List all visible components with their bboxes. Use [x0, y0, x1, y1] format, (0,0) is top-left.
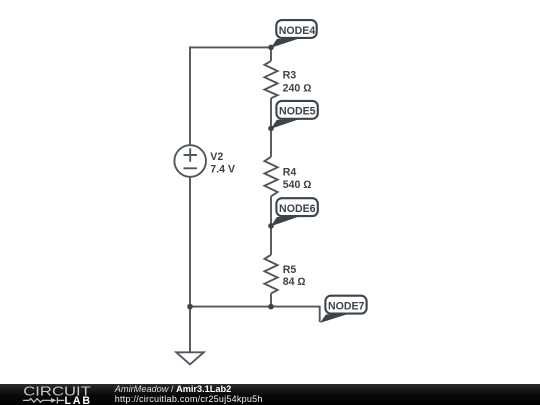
ground [176, 352, 203, 364]
footer bar [0, 384, 540, 405]
node junction dot bottom left [187, 304, 193, 310]
wire right vertical top lead [270, 47, 272, 61]
svg-text:R3: R3 [283, 70, 297, 82]
node junction dot NODE5 [268, 126, 274, 132]
footer credit text [115, 385, 263, 403]
wire top horizontal [190, 46, 271, 48]
wire ground stem [189, 307, 191, 353]
net flag NODE4 [271, 20, 317, 48]
resistor R3 [265, 61, 278, 98]
svg-text:540 Ω: 540 Ω [283, 179, 312, 191]
node junction dot R5 bottom [268, 304, 274, 310]
net flag NODE6 [271, 198, 318, 226]
logo resistor symbol wire [23, 397, 64, 403]
logo diode symbol [51, 398, 56, 403]
wire NODE5 to R4 [270, 128, 272, 156]
wire bottom horizontal [190, 306, 320, 308]
voltage source V2 [174, 145, 206, 177]
wire R4 to NODE6 [270, 196, 272, 226]
svg-text:240 Ω: 240 Ω [283, 82, 312, 94]
wire R5 to bottom [270, 294, 272, 307]
svg-text:NODE5: NODE5 [279, 106, 316, 118]
node junction dot NODE4 [268, 45, 274, 51]
wire R3 to NODE5 [270, 98, 272, 128]
svg-text:NODE6: NODE6 [279, 203, 316, 215]
svg-text:7.4 V: 7.4 V [210, 163, 235, 175]
svg-text:LAB: LAB [65, 395, 92, 405]
svg-text:NODE4: NODE4 [279, 25, 316, 37]
wire NODE7 stub [319, 306, 321, 322]
net flag NODE7 [320, 296, 367, 323]
node junction dot NODE6 [268, 223, 274, 229]
wire left vertical upper [189, 46, 191, 145]
svg-text:V2: V2 [210, 151, 223, 163]
CircuitLab logo [0, 379, 110, 405]
resistor R4 [265, 157, 278, 197]
net flag NODE5 [271, 101, 318, 129]
svg-text:R5: R5 [283, 264, 297, 276]
resistor R5 [265, 255, 278, 294]
svg-text:84 Ω: 84 Ω [283, 276, 306, 288]
svg-text:R4: R4 [283, 167, 297, 179]
wire NODE6 to R5 [270, 226, 272, 255]
wire left vertical lower [189, 177, 191, 307]
svg-text:NODE7: NODE7 [328, 300, 365, 312]
